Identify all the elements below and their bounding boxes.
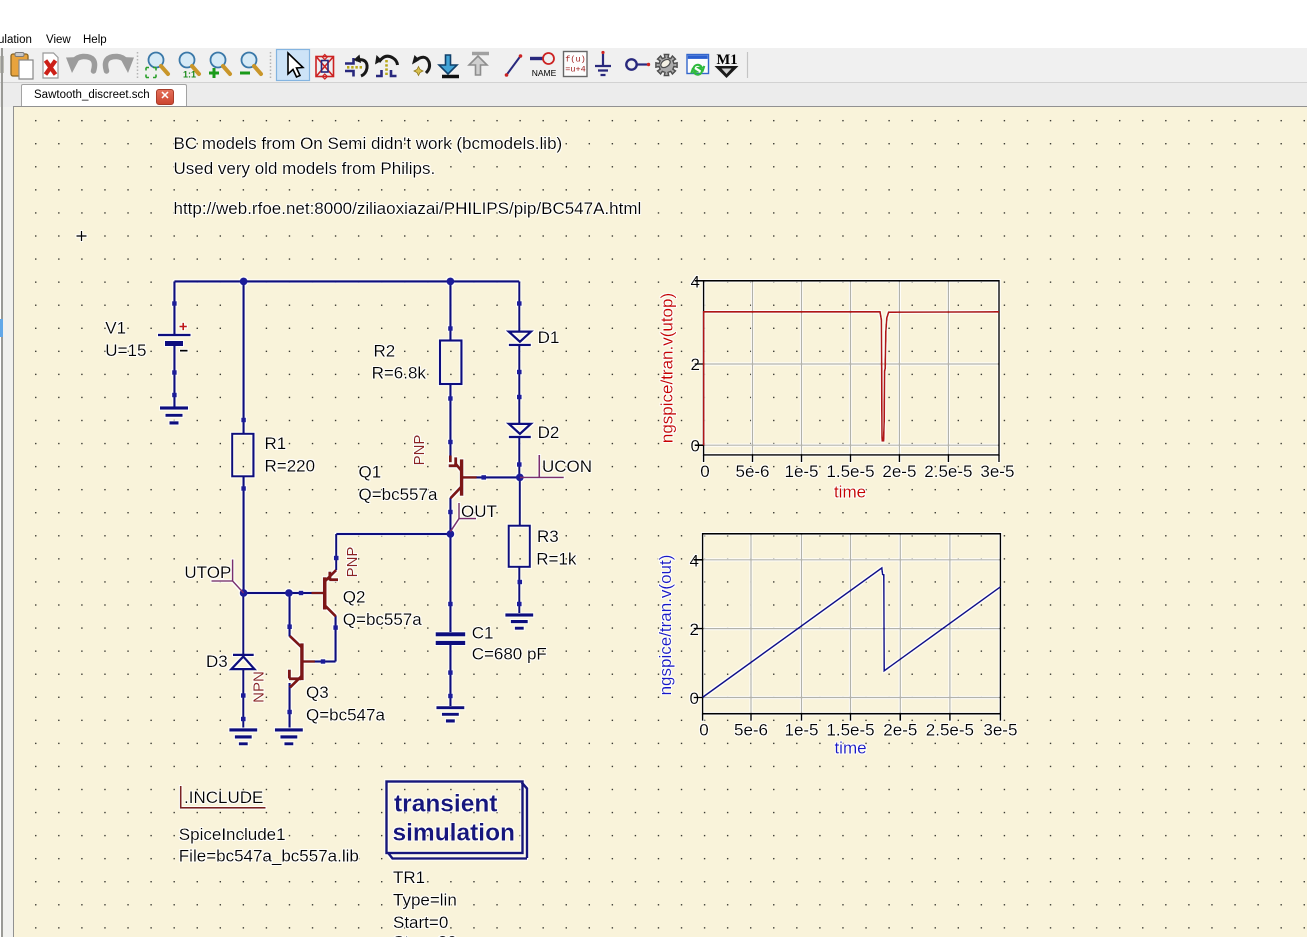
junction node top rail / R1 [240,278,248,286]
svg-text:PNP: PNP [344,547,361,578]
wire D1 drop [518,281,520,331]
wire C1 to ground [449,645,451,706]
transistor Q1 (PNP) [449,456,477,499]
node tick OUT [450,503,476,532]
svg-text:=u+4: =u+4 [565,65,585,75]
pin squares V1 [172,301,177,306]
svg-text:Q=bc547a: Q=bc547a [306,706,385,725]
separator [137,52,139,78]
equation tool icon [564,52,588,77]
transistor Q3 (NPN) [289,636,315,688]
svg-text:Q1: Q1 [359,463,382,482]
svg-text:time: time [834,739,866,758]
pin squares C1 [448,602,453,607]
capacitor C1 [436,632,466,645]
svg-text:UTOP: UTOP [184,563,231,582]
wire UTOP to D3 [242,593,244,655]
svg-text:D2: D2 [538,423,560,442]
curve v(utop) [704,312,999,445]
frame and ticks [695,281,999,462]
svg-text:2.5e-5: 2.5e-5 [924,462,972,481]
wire Q1 base to UCON node [476,476,520,478]
wire V1 bottom stem [173,346,175,407]
select tool (active) [277,50,310,81]
separator [747,52,749,78]
y tick labels [690,551,699,708]
pin square Q3 emitter [287,710,292,715]
wire D2 to UCON node [518,438,520,478]
svg-text:Start=0: Start=0 [393,913,448,932]
rotate cw icon [375,55,398,76]
wire OUT node to C1 [449,534,451,632]
wire R2 to Q1 emitter [449,384,451,456]
zoom out icon [240,53,261,75]
svg-text:0: 0 [700,462,709,481]
junction node UCON [516,474,524,482]
svg-text:D3: D3 [206,652,228,671]
svg-text:2: 2 [691,355,700,374]
svg-text:C=680 pF: C=680 pF [472,645,547,664]
pin square Q1 emitter [448,440,453,445]
pin square Q3 collector [287,624,292,629]
svg-text:3e-5: 3e-5 [983,721,1017,740]
svg-text:R1: R1 [265,434,287,453]
x tick labels [699,721,1017,740]
pin squares D2 [517,395,522,400]
node tick UTOP [212,560,244,594]
ground under Q3 [275,730,303,744]
svg-text:2e-5: 2e-5 [883,721,917,740]
wire R1 drop [243,281,245,433]
curve v(out) sawtooth [703,568,1001,697]
svg-text:Q2: Q2 [343,588,366,607]
wire D3 to ground [242,669,244,728]
ground under C1 [436,708,464,721]
svg-text:time: time [834,483,866,502]
svg-text:Type=lin: Type=lin [393,891,457,910]
resistor R2 body [440,341,461,385]
svg-text:U=15: U=15 [105,341,146,360]
diode D3 [231,655,254,669]
svg-text:Q3: Q3 [306,683,329,702]
svg-text:D1: D1 [538,328,560,347]
svg-text:UCON: UCON [542,457,592,476]
pin squares R2 [448,326,453,331]
svg-text:R3: R3 [537,527,559,546]
resistor R1 body [232,434,253,477]
wire top rail [174,280,519,282]
svg-text:.INCLUDE: .INCLUDE [184,788,263,807]
junction node Q3 collector [285,589,293,597]
svg-text:transient: transient [394,791,497,818]
pin squares D1 [517,301,522,306]
wire OUT horizontal [336,533,450,535]
grid lines [704,281,999,455]
ground under V1 [160,408,188,423]
svg-text:C1: C1 [472,624,494,643]
svg-text:R2: R2 [374,342,396,361]
rotate small icon [412,55,430,76]
svg-text:1e-5: 1e-5 [784,721,818,740]
diode D2 [509,424,531,437]
wire Q3 emitter to ground [289,683,291,728]
mirror about x icon [439,55,459,77]
junction node UTOP [240,589,248,597]
transistor Q2 (PNP) [312,570,339,616]
diode D1 [509,332,531,345]
svg-text:ngspice/tran.v(utop): ngspice/tran.v(utop) [658,293,677,443]
ground under R3 [505,615,533,628]
wire Q2 collector drop [335,616,337,662]
node tick .INCLUDE [181,786,266,808]
svg-text:f(u): f(u) [565,55,585,65]
diagram 1 (v(utop)) [658,272,1015,501]
pin square Q1 collector [448,510,453,515]
svg-text:Q=bc557a: Q=bc557a [359,485,438,504]
pin squares R1 [241,418,246,423]
svg-text:2e-5: 2e-5 [882,462,916,481]
battery V1 plate long [158,334,191,337]
resistor R3 body [509,526,530,567]
svg-text:M1: M1 [717,52,738,68]
svg-text:http://web.rfoe.net:8000/zilia: http://web.rfoe.net:8000/ziliaoxiazai/PH… [174,199,642,218]
svg-text:File=bc547a_bc557a.lib: File=bc547a_bc557a.lib [179,847,359,866]
grid lines [703,534,1001,714]
y tick labels [691,272,700,455]
svg-text:5e-6: 5e-6 [734,721,768,740]
rotate ccw icon [345,55,367,77]
pin square Q2 collector [333,625,338,630]
svg-text:NAME: NAME [532,68,557,78]
svg-text:R=6.8k: R=6.8k [372,364,427,383]
pin squares R3 [518,580,523,585]
origin marker + [77,231,87,241]
svg-text:V1: V1 [105,319,126,338]
wire Q2 collector to Q3 base [315,660,336,662]
svg-text:Q=bc557a: Q=bc557a [343,610,422,629]
zoom fit icon [146,53,168,78]
svg-text:0: 0 [699,721,708,740]
window chrome: menu bar [0,32,1307,51]
svg-text:SpiceInclude1: SpiceInclude1 [179,825,286,844]
svg-text:ngspice/tran.v(out): ngspice/tran.v(out) [656,555,675,696]
svg-text:BC models from On Semi didn't: BC models from On Semi didn't work (bcmo… [174,134,563,153]
transient simulation box title [393,791,516,847]
diagram 2 (v(out)) [656,534,1017,758]
simulate gear icon [656,54,677,75]
pin square Q2 emitter [334,556,339,561]
ground under D3 [229,730,257,744]
svg-text:1.5e-5: 1.5e-5 [826,721,874,740]
undo icon [75,56,95,71]
redo icon [105,56,125,71]
pin squares D3 branch [241,693,246,698]
wire UCON node to R3 [519,477,521,525]
marker M1 tool icon [715,52,739,78]
toolbar [0,48,1307,83]
battery V1 minus sign [180,350,188,352]
svg-text:3e-5: 3e-5 [980,462,1014,481]
svg-text:PNP: PNP [411,435,428,466]
tab bar [0,83,1307,107]
svg-text:2: 2 [690,620,699,639]
pin square Q1 base [481,475,486,480]
separator [270,52,272,78]
transient simulation box [387,782,528,859]
svg-text:1e-5: 1e-5 [784,462,818,481]
port tool icon [626,59,650,69]
leftover icon sliver [0,56,4,73]
svg-text:4: 4 [691,272,700,291]
wire R3 to ground [518,567,520,613]
svg-text:NPN: NPN [251,671,268,703]
svg-text:2.5e-5: 2.5e-5 [926,721,974,740]
frame and ticks [694,534,1001,721]
mirror about y icon (disabled) [469,54,489,76]
wire D1 to D2 [518,346,520,424]
junction node top rail / R2 [447,278,455,286]
view data display icon [687,55,709,75]
svg-text:0: 0 [691,436,700,455]
wire UTOP horizontal [244,592,312,594]
paste icon [11,53,33,80]
battery V1 plus sign [180,323,187,330]
svg-text:R=1k: R=1k [536,550,577,569]
node tick UCON [520,455,564,477]
wire Q1 collector to OUT node [449,498,451,534]
wire V1 top stem [173,281,175,334]
ground tool icon [595,51,611,75]
delete icon [43,53,58,78]
svg-text:simulation: simulation [393,820,516,847]
svg-text:Used very old models from Phil: Used very old models from Philips. [174,159,436,178]
name/label tool icon [530,53,557,78]
zoom 1:1 icon [180,53,200,80]
junction node OUT [447,530,455,538]
wire R2 drop [449,281,451,340]
wire/line tool icon [505,54,523,77]
pin square Q3 base [321,659,326,664]
svg-text:5e-6: 5e-6 [735,462,769,481]
svg-text:1:1: 1:1 [183,70,196,80]
zoom in icon [209,53,230,79]
battery V1 plate short thick [165,341,183,346]
wire Q3 collector riser [289,593,291,637]
component edit icon [316,55,334,80]
svg-text:Stop=30: Stop=30 [393,933,457,937]
svg-text:1.5e-5: 1.5e-5 [826,462,874,481]
x tick labels [700,462,1014,481]
wire Q2 emitter riser [335,534,337,570]
pin square Q2 base [299,591,304,596]
svg-text:4: 4 [690,551,699,570]
svg-text:TR1: TR1 [393,868,425,887]
svg-text:R=220: R=220 [265,457,316,476]
svg-text:0: 0 [690,689,699,708]
wire R1 to UTOP node [243,476,245,593]
